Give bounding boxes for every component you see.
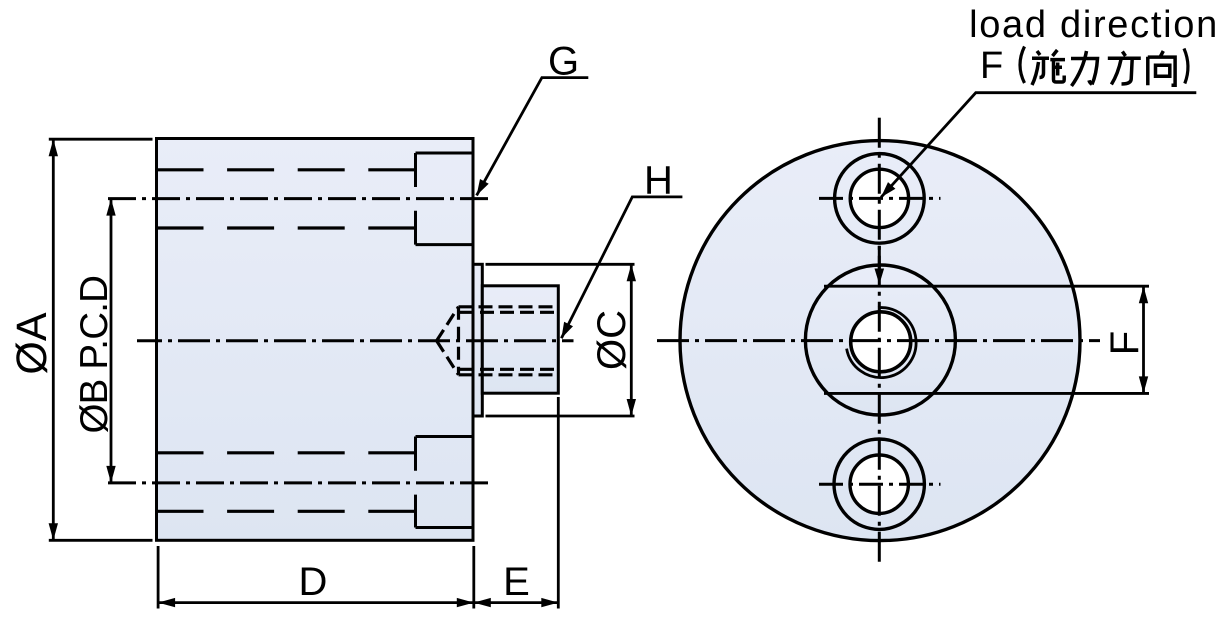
- top hole center mark horizontal: [819, 197, 941, 200]
- dim OB arrows: [106, 199, 115, 216]
- kanji hou: [1108, 52, 1141, 85]
- top bolt hole: [835, 154, 925, 244]
- dim F line: [1142, 286, 1145, 393]
- hidden line top hole lower: [157, 226, 416, 229]
- hidden line bottom hole upper: [157, 451, 416, 454]
- collar flange side view: [473, 264, 482, 416]
- dim E line: [474, 601, 559, 604]
- dim OA extension lines: [49, 139, 153, 540]
- svg-text:ØC: ØC: [590, 310, 634, 370]
- vertical centerline front view: [878, 118, 881, 563]
- dim OC extension lines: [486, 264, 635, 416]
- svg-text:H: H: [644, 159, 673, 203]
- kanji shi: [1032, 50, 1065, 85]
- svg-text:D: D: [299, 560, 328, 604]
- bottom bolt hole: [834, 439, 924, 529]
- hidden thread lines in stud: [459, 307, 559, 375]
- leader G: [477, 78, 589, 196]
- kanji mukai: [1148, 51, 1175, 85]
- bottom hole center mark horizontal: [819, 483, 941, 486]
- kanji chikara: [1071, 51, 1098, 86]
- hidden line top hole upper: [157, 168, 416, 171]
- dim D line: [158, 601, 474, 604]
- top counterbore notch: [416, 153, 474, 245]
- dim D E extension lines: [158, 397, 558, 609]
- leader H: [561, 197, 682, 338]
- threaded stud side view: [482, 286, 558, 393]
- thread end vertical dashed: [457, 307, 460, 375]
- paren close: [1184, 49, 1188, 84]
- boss flat chord lines / F extensions: [824, 286, 1149, 393]
- load arrow head: [875, 269, 885, 285]
- top hole centerline: [108, 197, 491, 200]
- svg-text:F: F: [1103, 331, 1147, 355]
- hidden line bottom hole lower: [157, 510, 416, 513]
- bottom counterbore notch: [416, 437, 474, 528]
- svg-text:F: F: [980, 45, 1003, 87]
- drill point V dashed: [437, 307, 459, 375]
- dim E arrows: [474, 598, 491, 607]
- paren open: [1020, 47, 1025, 84]
- front view big circle: [680, 141, 1080, 541]
- svg-text:E: E: [503, 560, 530, 604]
- thread arc: [847, 308, 916, 378]
- load arrow shaft: [878, 246, 881, 271]
- load direction leader: [881, 93, 1196, 198]
- body cylinder side view: [157, 139, 474, 541]
- svg-text:ØA: ØA: [8, 312, 56, 374]
- dim OC arrows: [627, 264, 636, 281]
- main centerline side view: [137, 339, 574, 342]
- front view boss circle: [805, 265, 955, 415]
- center tapped hole inner circle: [851, 312, 911, 372]
- dim OC line: [630, 264, 633, 416]
- svg-text:G: G: [548, 40, 579, 84]
- dim D arrows: [158, 598, 175, 607]
- dim OB line: [110, 199, 113, 483]
- svg-text:load direction: load direction: [969, 4, 1219, 46]
- dim F arrows: [1139, 286, 1148, 303]
- dim OA line: [52, 139, 55, 540]
- bottom hole centerline: [108, 481, 491, 484]
- svg-text:ØB P.C.D: ØB P.C.D: [73, 276, 116, 434]
- horizontal centerline front view: [657, 339, 1100, 342]
- dim OA arrows: [49, 139, 58, 156]
